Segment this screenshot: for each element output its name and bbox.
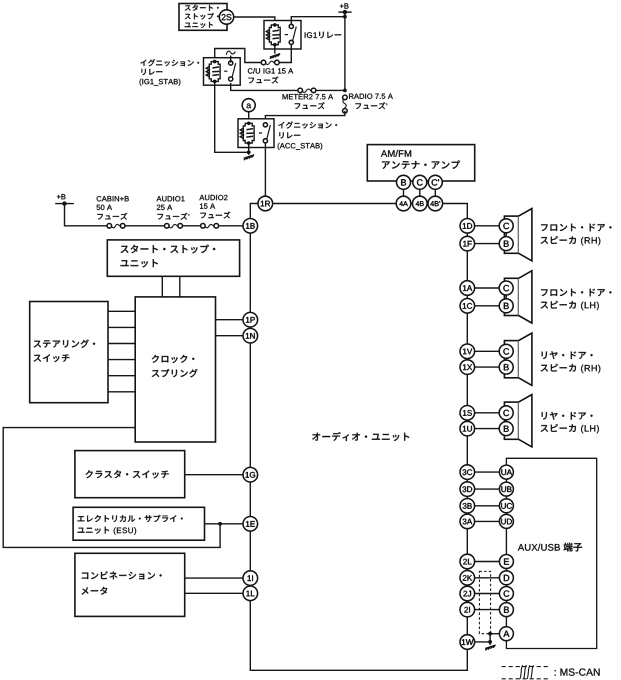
label front door speaker LH name line2 (541, 301, 599, 310)
wire: AUX column segment to UC (505, 496, 507, 499)
pin C (499, 344, 513, 358)
pin 1E (243, 517, 258, 532)
box: cluster switch (75, 451, 185, 498)
label rear door speaker LH name line2 (541, 424, 599, 433)
label CABIN+B fuse value (97, 205, 112, 210)
pin D (499, 571, 513, 585)
label front door speaker RH name line1 (541, 224, 611, 232)
pin 2I (460, 602, 475, 617)
wire: squiggle stub to switch (230, 56, 232, 63)
label ACC_STAB label line2 (279, 132, 300, 138)
relay ignition relay IG1_STAB (204, 58, 241, 85)
fuse C/U IG1 15 A (261, 59, 279, 66)
MS-CAN legend (502, 665, 551, 679)
pin B (499, 299, 513, 313)
fuse RADIO 7.5 A (342, 95, 349, 113)
wire: AUX column segment to UD (505, 513, 507, 515)
pin 1D (460, 219, 475, 234)
wire: rear door speaker LH - lead (475, 428, 500, 430)
label steering switch line1 (34, 340, 95, 348)
pin A (499, 627, 513, 641)
speaker front door speaker LH (504, 271, 532, 323)
box: start-stop unit (top) (179, 4, 227, 31)
wire: front door speaker RH + lead (475, 225, 500, 227)
wire: steering-clockspring link 5 (108, 375, 135, 377)
pin 2J (460, 586, 475, 601)
wire: node a to ACC_STAB coil (248, 112, 250, 124)
pin B (397, 175, 411, 189)
wire: AUX column segment to A (505, 617, 507, 627)
pin 1B (243, 219, 258, 234)
pin 1F (460, 236, 475, 251)
wire: right bus segment to 1V (466, 313, 468, 344)
wire: right bus segment to 1X (466, 359, 468, 360)
pin C (499, 587, 513, 601)
wire: right bus segment to 2L (466, 529, 468, 555)
wire: ACC_STAB coil to common ground (248, 144, 250, 155)
ground relay coils (244, 155, 254, 160)
wire: AUX column segment to B (505, 601, 507, 603)
label ESU line2 (78, 527, 137, 535)
label rear door speaker RH name line1 (542, 351, 593, 359)
pin 1N (243, 328, 258, 343)
label AUX/USB terminal (518, 543, 582, 552)
pin C (499, 281, 513, 295)
fuse AUDIO2 15 A (201, 222, 219, 229)
pin 1P (243, 312, 258, 327)
relay U1 IG1 (264, 21, 301, 50)
wire: clock spring to 1P (216, 319, 244, 321)
label CABIN+B fuse name (97, 196, 129, 201)
pin 1A (460, 281, 475, 296)
speaker front door speaker RH (504, 209, 532, 261)
pin UC (499, 499, 513, 513)
wire: IG1_STAB coil to common ground (215, 82, 249, 153)
wire: left bus segment to 1L (249, 584, 251, 587)
label cluster switch (86, 470, 169, 478)
wire: 3B-UC (475, 505, 500, 507)
wire: C to 4B (419, 189, 421, 196)
pin 1U (460, 421, 475, 436)
wire: left +B to pin 1B (65, 204, 244, 226)
pin 2S (219, 10, 233, 24)
pin UA (499, 465, 513, 479)
junction: A wire upper (488, 632, 492, 636)
fuse CABIN+B 50 A (107, 222, 125, 229)
label front door speaker LH name line1 (541, 289, 611, 297)
wire: +B bus down to METER2 junction (344, 12, 346, 90)
wire: 2J-C (475, 593, 500, 595)
label start-stop unit line3 (185, 22, 213, 28)
pin 1G (243, 467, 258, 482)
speaker rear door speaker RH (504, 333, 532, 385)
label METER2 fuse value (283, 94, 334, 99)
wire: IG1 switch top to +B bus (291, 17, 345, 25)
ground IG1 relay coil (270, 54, 280, 59)
wire: IG1 switch bottom to C/U IG1 fuse (279, 44, 291, 62)
wire: ESU to 1E (205, 523, 244, 525)
wire: right bus segment to 1U (466, 420, 468, 421)
wire: AUX column segment to C (505, 585, 507, 587)
wire: 3A-UD (475, 520, 500, 522)
junction: IG1 switch wire on +B bus (343, 15, 347, 19)
wire: AUX column segment to D (505, 569, 507, 571)
wire: 4B' to audio unit right bus (443, 204, 468, 219)
pin C' (428, 175, 442, 189)
wire: clock spring to 1N (216, 335, 244, 337)
wire: right bus segment to 3D (466, 479, 468, 481)
wire: audio unit outline 1B to 1R (250, 204, 258, 219)
wire: left bus segment to 1E (249, 482, 251, 517)
pin C (499, 406, 513, 420)
power +B (top) (338, 3, 351, 14)
wire: 2L-E (475, 561, 500, 563)
wire: 1R to 4A (273, 203, 397, 205)
label clock spring line2 (152, 369, 198, 377)
wire: right bus segment to 3C (466, 436, 468, 465)
wire: IG1_STAB switch bottom to METER2 fuse (231, 83, 299, 90)
label start-stop main line2 (121, 259, 158, 267)
wire: right bus segment to 1C (466, 295, 468, 298)
pin 1W (460, 635, 475, 650)
pin 1V (460, 344, 475, 359)
pin 4B' (428, 196, 443, 211)
junction: A wire lower (488, 640, 492, 644)
pin B (499, 422, 513, 436)
label C/U IG1 fuse word (249, 77, 279, 84)
wire: 3C-UA (475, 471, 500, 473)
wire: RADIO fuse to ACC_STAB switch (265, 111, 345, 123)
label MS-CAN (555, 669, 600, 676)
label IG1 relay (305, 32, 341, 39)
wire: A to junction (475, 634, 500, 642)
box: clock spring (135, 297, 215, 442)
wire: combination meter to 1I (185, 577, 243, 579)
wire: rear door speaker LH C-B link (505, 420, 507, 422)
pin C (413, 175, 427, 189)
pin 4B (413, 196, 428, 211)
wire: left bus segment to 1N (249, 327, 251, 328)
pin 4A (396, 196, 411, 211)
pin B (499, 603, 513, 617)
node a (242, 99, 255, 112)
label ACC_STAB label line1 (278, 122, 337, 129)
wire: right bus segment to 2J (466, 585, 468, 586)
pin 3A (460, 514, 475, 529)
wire: rear door speaker RH - lead (475, 366, 500, 368)
label ESU line1 (78, 515, 183, 522)
wire: steering-clockspring link 3 (108, 343, 135, 345)
box: steering switch (30, 302, 108, 403)
label combination meter line2 (82, 587, 108, 595)
pin 1C (460, 299, 475, 314)
wire: front door speaker LH C-B link (505, 295, 507, 299)
wire: right bus segment to 3B (466, 496, 468, 498)
label AUDIO1 fuse word (158, 213, 190, 220)
wire: right bus segment to 1A (466, 251, 468, 281)
label audio unit (312, 432, 409, 441)
label IG1_STAB label line1 (141, 59, 200, 66)
wire: front door speaker LH - lead (475, 305, 500, 307)
label start-stop main line1 (121, 245, 216, 254)
pin 2L (460, 554, 475, 569)
box: electrical supply unit (73, 507, 204, 540)
ground AUX/USB (485, 645, 495, 650)
wire: 2K-D (475, 577, 500, 579)
wire: left bus segment to 1I (249, 531, 251, 571)
label CABIN+B fuse word (97, 213, 127, 220)
box: start-stop unit (main) (107, 240, 239, 276)
wire: right bus segment to 3A (466, 513, 468, 514)
wire: rear door speaker RH C-B link (505, 358, 507, 360)
wire: B to 4A (403, 189, 405, 196)
pin C (499, 219, 513, 233)
wire: steering-clockspring link 4 (108, 359, 135, 361)
wire: start-stop to clock spring B (179, 276, 181, 297)
wire: clock spring loop to ESU junction (3, 428, 220, 548)
box: combination meter (75, 553, 185, 616)
wire: 4A-4B link (411, 203, 413, 205)
wire: C' to 4B' (434, 189, 436, 196)
wire: 2I-B (475, 609, 500, 611)
wire: start-stop to clock spring A (161, 276, 163, 297)
fuse METER2 7.5 A (298, 87, 316, 94)
wire: AUX column segment to E (505, 528, 507, 554)
wire: rear door speaker LH + lead (475, 412, 500, 414)
wire: 4B-4B' link (426, 203, 429, 205)
label start-stop unit line2 (185, 13, 219, 20)
wire: right bus segment to 1F (466, 233, 468, 236)
label RADIO fuse value (349, 94, 393, 99)
label front door speaker RH name line2 (541, 236, 601, 245)
power +B (left) (55, 194, 74, 206)
label steering switch line2 (34, 354, 70, 362)
label AM/FM line1 (381, 150, 411, 157)
pin 1L (243, 586, 258, 601)
label rear door speaker RH name line2 (541, 364, 601, 373)
wire: steering-clockspring link 2 (108, 326, 135, 328)
wire: 3D-UB (475, 488, 500, 490)
junction: METER2 wire on +B bus (343, 89, 347, 93)
wire: AUX column segment to UB (505, 479, 507, 482)
wire: METER2 fuse to +B bus (315, 89, 345, 91)
wire: right bus segment to 2K (466, 569, 468, 571)
label clock spring line1 (152, 355, 195, 363)
wire: AUX ground stub (489, 642, 491, 645)
wire: front door speaker RH C-B link (505, 233, 507, 237)
label ACC_STAB label line3 (278, 143, 323, 150)
pin 1R (258, 196, 273, 211)
label AUDIO1 fuse name (157, 196, 185, 201)
label METER2 fuse word (295, 102, 325, 109)
pin 3C (460, 465, 475, 480)
wire: steering-clockspring link 6 (108, 391, 135, 393)
wire: left bus segment to 1P (249, 233, 251, 312)
label combination meter line1 (82, 571, 162, 579)
pin UB (499, 482, 513, 496)
box: AUX/USB terminal outline (506, 458, 596, 648)
relay ignition relay ACC_STAB (238, 119, 274, 148)
pin 2K (460, 571, 475, 586)
label AUDIO2 fuse word (200, 212, 230, 219)
label AM/FM line2 (382, 160, 460, 169)
fuse AUDIO1 25 A (165, 222, 183, 229)
pin B (499, 237, 513, 251)
wire: front door speaker LH + lead (475, 287, 500, 289)
pin 1X (460, 360, 475, 375)
box: AM/FM antenna amp (367, 145, 474, 181)
wire: ACC_STAB switch to pin 1R (264, 143, 266, 196)
junction: common coil ground (247, 150, 251, 154)
wire: right bus segment to 1S (466, 374, 468, 405)
label C/U IG1 fuse value (248, 68, 293, 74)
wire: right bus segment to 2I (466, 601, 468, 603)
label RADIO fuse word (356, 102, 388, 109)
label IG1_STAB label line2 (142, 69, 163, 75)
label AUDIO1 fuse value (157, 205, 172, 210)
pin E (499, 555, 513, 569)
wire: cluster switch to 1G (185, 474, 243, 476)
wire: left bus segment to 1G (249, 343, 251, 467)
label start-stop unit line1 (185, 5, 219, 11)
wire: rear door speaker RH + lead (475, 350, 500, 352)
pin 1S (460, 406, 475, 421)
pin 3D (460, 482, 475, 497)
wire: fuse to IG1_STAB coil (215, 49, 262, 63)
label IG1_STAB label line3 (140, 79, 181, 86)
wire: 2S to IG1 relay coil (234, 17, 275, 25)
wire: left bus bottom + audio unit bottom edge (250, 601, 467, 671)
junction: loop on ESU wire (218, 522, 222, 526)
pin 1I (243, 571, 258, 586)
MS-CAN shield dashed box (479, 571, 490, 633)
speaker rear door speaker LH (504, 395, 532, 447)
wire: right bus segment to 1W (466, 617, 468, 635)
squiggle marker above IG1_STAB switch (226, 51, 235, 55)
pin 3B (460, 499, 475, 514)
label rear door speaker LH name line1 (542, 412, 593, 420)
pin B (499, 360, 513, 374)
wire: front door speaker RH - lead (475, 243, 500, 245)
wire: IG1 coil to ground (274, 45, 276, 54)
wire: combination meter to 1L (185, 592, 243, 594)
pin UD (499, 514, 513, 528)
label AUDIO2 fuse value (200, 204, 215, 209)
label AUDIO2 fuse name (199, 195, 227, 200)
wire: steering-clockspring link 1 (108, 310, 135, 312)
